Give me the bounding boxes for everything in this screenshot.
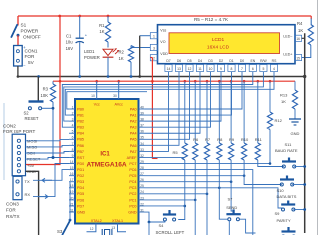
svg-text:1: 1 <box>153 35 155 39</box>
svg-text:15: 15 <box>296 56 300 60</box>
svg-text:10u: 10u <box>66 40 74 45</box>
svg-text:35: 35 <box>140 136 144 140</box>
svg-text:S4: S4 <box>159 223 165 228</box>
svg-text:1: 1 <box>72 105 74 109</box>
LCD data pins D7-RS <box>165 59 278 72</box>
svg-text:PC2: PC2 <box>129 192 136 196</box>
svg-text:PB5: PB5 <box>77 138 84 142</box>
svg-text:11: 11 <box>198 67 202 71</box>
switch S11 BAUD RATE <box>282 158 306 169</box>
svg-text:14: 14 <box>70 160 74 164</box>
wire bus R/W to PB2 <box>64 72 264 121</box>
svg-text:7: 7 <box>72 142 74 146</box>
svg-text:EN: EN <box>250 59 255 63</box>
wire bus EN to PB3 <box>62 72 253 127</box>
svg-text:LED1: LED1 <box>84 49 95 54</box>
label CON3 <box>6 202 20 219</box>
svg-text:RX: RX <box>25 192 31 197</box>
svg-text:4: 4 <box>72 124 74 128</box>
label R5 <box>173 150 179 155</box>
svg-text:40: 40 <box>140 105 144 109</box>
svg-text:PARITY: PARITY <box>277 218 291 223</box>
svg-text:+5V: +5V <box>27 163 35 168</box>
svg-text:22: 22 <box>140 202 144 206</box>
wire MISO <box>26 145 70 147</box>
svg-text:PA2: PA2 <box>130 120 137 124</box>
LCD pin VO <box>150 40 165 51</box>
svg-text:S9: S9 <box>275 211 281 216</box>
svg-text:29: 29 <box>140 160 144 164</box>
connector CON1 <box>14 45 27 68</box>
wire R10 to S10 <box>244 160 282 185</box>
svg-text:Vss: Vss <box>160 28 166 32</box>
wire +5V bus <box>53 80 295 83</box>
svg-text:R12: R12 <box>275 118 283 123</box>
svg-text:D6: D6 <box>177 59 181 63</box>
svg-text:ATMEGA16A: ATMEGA16A <box>87 161 127 168</box>
svg-text:PC1: PC1 <box>129 198 136 202</box>
svg-text:39: 39 <box>140 111 144 115</box>
svg-text:9: 9 <box>72 154 74 158</box>
wire PC6 column <box>145 170 253 235</box>
svg-text:VDD: VDD <box>160 52 168 56</box>
svg-text:38: 38 <box>140 118 144 122</box>
svg-text:PD0: PD0 <box>77 162 84 166</box>
wire RESET net <box>26 156 70 159</box>
switch S3 <box>63 182 76 235</box>
svg-text:CON3: CON3 <box>6 202 19 207</box>
svg-text:TX: TX <box>25 179 30 184</box>
label R13 <box>280 92 288 103</box>
svg-text:10: 10 <box>91 94 95 98</box>
wire R5 to S4 <box>178 160 185 220</box>
page border line left <box>3 103 5 180</box>
svg-text:PC4: PC4 <box>129 180 136 184</box>
svg-text:PA0: PA0 <box>130 107 137 111</box>
svg-text:10: 10 <box>209 67 213 71</box>
svg-text:1K: 1K <box>298 28 303 33</box>
label S2 <box>24 111 39 121</box>
svg-text:POWER: POWER <box>21 29 39 34</box>
svg-text:PD7: PD7 <box>77 204 84 208</box>
svg-text:PA7: PA7 <box>130 150 137 154</box>
label S3 <box>57 229 63 234</box>
wire PC4 to R9 <box>145 180 233 183</box>
svg-text:RESET: RESET <box>25 116 39 121</box>
LCD pin Vss <box>150 28 166 39</box>
svg-text:RS: RS <box>272 59 277 63</box>
svg-text:GND: GND <box>128 210 137 214</box>
svg-text:PB2: PB2 <box>77 120 84 124</box>
label TX <box>25 179 30 184</box>
labels R6-R11 <box>193 137 262 142</box>
svg-text:37: 37 <box>140 124 144 128</box>
resistor R13 <box>292 81 297 119</box>
svg-text:AVcc: AVcc <box>115 102 123 106</box>
svg-text:S11: S11 <box>285 142 293 147</box>
svg-text:R8: R8 <box>217 137 223 142</box>
label RX <box>25 192 31 197</box>
svg-text:36: 36 <box>140 130 144 134</box>
wire rail to R4 <box>310 16 312 25</box>
switch S4 SCROLL LEFT <box>145 210 177 235</box>
label CON2 <box>3 123 35 134</box>
switch S1 POWER ON/OFF <box>11 16 19 46</box>
svg-text:12: 12 <box>90 227 94 231</box>
svg-text:34: 34 <box>140 142 144 146</box>
svg-text:R4: R4 <box>297 21 303 26</box>
IC1 pin XTAL2 12 <box>90 219 102 231</box>
ground symbol <box>289 119 301 125</box>
svg-text:16: 16 <box>70 172 74 176</box>
svg-text:16: 16 <box>296 37 300 41</box>
svg-text:11: 11 <box>70 208 74 212</box>
svg-text:R6: R6 <box>193 137 199 142</box>
svg-text:PA6: PA6 <box>130 144 137 148</box>
IC1 pin Vcc 10 <box>91 81 100 106</box>
svg-text:3: 3 <box>72 118 74 122</box>
LCD frame <box>158 25 296 64</box>
switch S9 PARITY <box>281 201 306 212</box>
svg-text:S1: S1 <box>21 23 27 28</box>
svg-text:27: 27 <box>140 172 144 176</box>
arrow RX <box>38 195 48 199</box>
wire Vss to GND <box>140 36 151 77</box>
svg-text:PB3: PB3 <box>77 126 84 130</box>
svg-text:2: 2 <box>72 111 74 115</box>
svg-text:PA1: PA1 <box>130 113 137 117</box>
label R12 <box>275 118 283 123</box>
svg-text:1K: 1K <box>119 56 124 61</box>
label S11 <box>275 142 298 153</box>
svg-text:5: 5 <box>72 130 74 134</box>
svg-text:POWER: POWER <box>84 55 100 60</box>
resistor R2 <box>128 46 150 77</box>
svg-text:R11: R11 <box>255 137 263 142</box>
svg-text:25: 25 <box>140 184 144 188</box>
label S7 <box>226 196 237 210</box>
svg-text:16V: 16V <box>66 46 74 51</box>
label C1 <box>66 33 74 51</box>
svg-text:R10: R10 <box>241 137 249 142</box>
LCD LCD1 display <box>169 33 280 54</box>
svg-text:FOR: FOR <box>6 208 16 213</box>
svg-text:PD1: PD1 <box>77 168 84 172</box>
svg-text:12: 12 <box>188 67 192 71</box>
svg-text:D5: D5 <box>187 59 191 63</box>
svg-text:PB1: PB1 <box>77 113 84 117</box>
wire bus row4 to PB0 <box>67 92 147 109</box>
svg-text:26: 26 <box>140 178 144 182</box>
svg-text:FOR: FOR <box>25 54 36 59</box>
page border line <box>317 0 319 235</box>
resistors R5-R11 pull-ups <box>182 81 260 160</box>
label R5-R12 value <box>194 17 229 22</box>
label S9 <box>275 211 291 223</box>
label S10 <box>277 188 297 199</box>
svg-text:BAUD RATE: BAUD RATE <box>275 148 298 153</box>
svg-text:Vcc: Vcc <box>94 102 100 106</box>
svg-text:33: 33 <box>140 148 144 152</box>
svg-text:D1: D1 <box>229 59 233 63</box>
LCD pin VDD <box>150 52 168 61</box>
svg-text:PD5: PD5 <box>77 192 84 196</box>
svg-text:PC6: PC6 <box>129 168 136 172</box>
svg-text:5V: 5V <box>28 60 35 65</box>
svg-text:5: 5 <box>262 67 264 71</box>
svg-text:S3: S3 <box>57 229 63 234</box>
svg-text:8: 8 <box>72 148 74 152</box>
wire SCK <box>26 152 70 154</box>
svg-text:6: 6 <box>72 136 74 140</box>
svg-text:PC0: PC0 <box>129 204 136 208</box>
svg-text:PD6: PD6 <box>77 198 84 202</box>
svg-text:CON2: CON2 <box>3 123 16 128</box>
wire GND bus <box>17 75 307 78</box>
svg-text:AREF: AREF <box>127 156 138 160</box>
label R4 <box>297 21 303 33</box>
svg-text:7: 7 <box>241 67 243 71</box>
wire R6 column <box>194 160 196 235</box>
svg-text:31: 31 <box>140 208 144 212</box>
svg-text:PB7: PB7 <box>77 150 84 154</box>
switch S8 <box>282 227 305 238</box>
svg-text:S7: S7 <box>228 196 234 201</box>
label CON1 <box>25 48 38 64</box>
resistor R1 <box>105 16 110 48</box>
wire R7 column <box>206 160 208 235</box>
svg-text:GND: GND <box>77 210 86 214</box>
label GND <box>291 131 300 136</box>
svg-text:C1: C1 <box>66 33 72 38</box>
wire CON2 GND <box>26 77 39 236</box>
svg-text:24: 24 <box>140 190 144 194</box>
IC IC1 body <box>75 99 139 224</box>
switch S2 RESET <box>28 77 54 110</box>
svg-text:8: 8 <box>231 67 233 71</box>
svg-text:FOR ISP PORT: FOR ISP PORT <box>3 129 35 134</box>
svg-text:D4: D4 <box>198 59 202 63</box>
svg-text:R2: R2 <box>119 50 125 55</box>
svg-text:LED+: LED+ <box>283 53 292 57</box>
svg-text:PB0: PB0 <box>77 107 84 111</box>
label S1 <box>21 23 41 40</box>
wire R4 to LED+ <box>302 45 311 58</box>
svg-text:XTAL2: XTAL2 <box>91 219 102 223</box>
LCD pin LED+ <box>283 53 301 61</box>
svg-text:10K: 10K <box>41 93 49 98</box>
wire PC3 to S9 <box>145 186 284 208</box>
svg-text:LCD1: LCD1 <box>212 37 225 43</box>
svg-text:1K: 1K <box>281 99 286 104</box>
label S4 <box>156 223 185 235</box>
svg-text:PA3: PA3 <box>130 126 137 130</box>
label LED1 <box>84 49 100 60</box>
label R2 <box>119 50 125 62</box>
svg-text:D2: D2 <box>219 59 223 63</box>
svg-text:PC7: PC7 <box>129 162 136 166</box>
svg-text:R7: R7 <box>205 137 211 142</box>
svg-text:14: 14 <box>167 67 171 71</box>
svg-text:PA4: PA4 <box>130 132 137 136</box>
svg-text:GND: GND <box>291 131 300 136</box>
svg-text:D3: D3 <box>208 59 212 63</box>
wire PC5 to R10 <box>145 174 246 177</box>
wire AREF row <box>145 156 185 158</box>
wire MOSI <box>26 139 70 140</box>
svg-text:XTAL1: XTAL1 <box>112 219 123 223</box>
svg-text:6: 6 <box>252 67 254 71</box>
crystal XTAL1 <box>102 229 112 236</box>
wire XTAL2 stub corner <box>87 224 96 232</box>
IC1 pin XTAL1 13 <box>111 219 123 230</box>
wire TX to PD1 <box>33 170 69 181</box>
svg-text:PB4: PB4 <box>77 132 84 136</box>
wire +5V to CON2 <box>26 16 61 165</box>
svg-text:CON1: CON1 <box>25 48 38 53</box>
svg-text:IC1: IC1 <box>100 152 110 158</box>
svg-text:PD4: PD4 <box>77 186 84 190</box>
svg-text:RX/TX: RX/TX <box>6 214 20 219</box>
wire PC2 to R7 <box>145 193 209 196</box>
svg-text:R/W: R/W <box>260 59 267 63</box>
svg-text:PC5: PC5 <box>129 174 136 178</box>
svg-text:PD2: PD2 <box>77 174 84 178</box>
wire R8 to S7 <box>219 160 228 219</box>
wire PC7 to R12 <box>145 162 272 165</box>
svg-text:R5: R5 <box>173 150 179 155</box>
capacitor C1 <box>76 16 88 77</box>
svg-text:R13: R13 <box>280 92 288 97</box>
wire VDD to +5V <box>150 58 152 159</box>
svg-text:4: 4 <box>273 67 275 71</box>
svg-text:LED−: LED− <box>283 34 292 38</box>
label R1 <box>99 23 105 34</box>
svg-text:3: 3 <box>153 46 155 50</box>
svg-text:D7: D7 <box>166 59 170 63</box>
IC1 left pins PB0-GND <box>69 105 86 214</box>
svg-text:R1: R1 <box>99 23 105 28</box>
switch S7 SEND <box>226 209 255 235</box>
svg-text:PD3: PD3 <box>77 180 84 184</box>
svg-text:SEND: SEND <box>226 205 237 210</box>
wire +5V top rail <box>18 15 311 18</box>
svg-text:S10: S10 <box>277 188 285 193</box>
svg-text:PC3: PC3 <box>129 186 136 190</box>
svg-text:R9: R9 <box>229 137 235 142</box>
resistor R4 <box>308 25 313 46</box>
svg-text:9: 9 <box>220 67 222 71</box>
svg-text:ON/OFF: ON/OFF <box>23 34 41 39</box>
svg-text:R3: R3 <box>43 86 49 91</box>
svg-text:R5 – R12 = 4.7K: R5 – R12 = 4.7K <box>194 17 229 22</box>
connector CON3 <box>13 176 22 199</box>
wire LED- to GND rail <box>302 33 305 233</box>
wire RX to PD0 <box>33 164 69 197</box>
wire LCD data bus D0-D7 to PA0-PA7 <box>145 72 243 151</box>
svg-text:2: 2 <box>153 57 155 61</box>
wire PC1 to R6 <box>145 199 197 202</box>
svg-text:13: 13 <box>177 67 181 71</box>
wire R9 to S7 stem <box>231 160 234 214</box>
arrow TX <box>42 178 52 182</box>
svg-text:32: 32 <box>140 154 144 158</box>
wire R11 to S11 <box>258 160 284 167</box>
svg-text:28: 28 <box>140 166 144 170</box>
CON2 pin labels <box>27 138 41 174</box>
wire PC0 to R5 <box>145 205 187 208</box>
wire +5V feed stub <box>152 158 157 160</box>
svg-text:23: 23 <box>140 196 144 200</box>
svg-text:30: 30 <box>113 94 117 98</box>
connector CON2 <box>12 134 25 176</box>
svg-text:PA5: PA5 <box>130 138 137 142</box>
svg-text:1K: 1K <box>99 29 104 34</box>
svg-text:PB6: PB6 <box>77 144 84 148</box>
wire XTAL1 stub corner <box>118 224 127 232</box>
wire bus RS to PB1 <box>65 72 274 115</box>
wire CON1 to GND bus <box>17 66 19 77</box>
IC1 pin AVcc 30 <box>113 81 123 106</box>
resistor R12 <box>267 81 272 163</box>
LCD pin LED- <box>283 34 301 41</box>
svg-text:SCROLL LEFT: SCROLL LEFT <box>156 230 185 235</box>
svg-text:DATA BITS: DATA BITS <box>277 194 297 199</box>
svg-text:16X4 LCD: 16X4 LCD <box>207 45 230 51</box>
label R3 <box>41 86 49 97</box>
svg-text:VO: VO <box>160 40 165 44</box>
LED LED1 <box>103 49 119 77</box>
switch S10 DATA BITS <box>280 176 306 187</box>
svg-text:RST: RST <box>77 156 85 160</box>
IC1 right pins PA0-GND <box>127 105 145 214</box>
svg-text:17: 17 <box>70 178 74 182</box>
svg-text:D0: D0 <box>240 59 244 63</box>
resistor R3 <box>50 81 55 157</box>
svg-text:15: 15 <box>70 166 74 170</box>
